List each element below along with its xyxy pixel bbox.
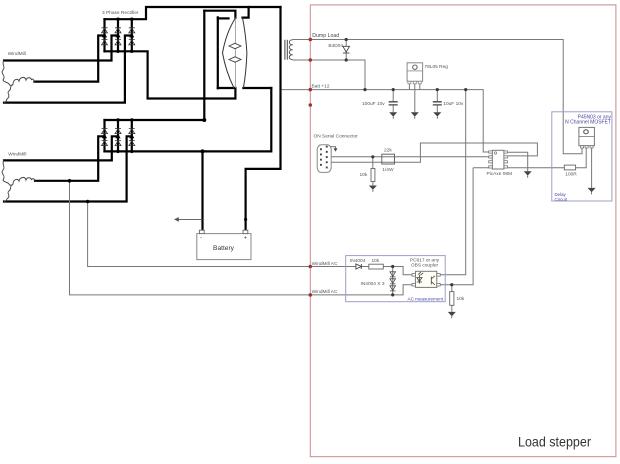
svg-text:OBS coupler: OBS coupler [411, 263, 439, 269]
svg-text:22k: 22k [384, 148, 392, 154]
svg-text:Dump Load: Dump Load [312, 33, 339, 39]
svg-text:IN4004: IN4004 [350, 258, 366, 264]
svg-text:10k: 10k [372, 258, 380, 264]
svg-text:AC measurement: AC measurement [408, 296, 444, 301]
svg-text:ON Serial Connector: ON Serial Connector [314, 134, 359, 140]
svg-text:IN4004 X 3: IN4004 X 3 [361, 281, 385, 287]
svg-text:B4D04: B4D04 [328, 43, 343, 49]
svg-text:WindMill AC: WindMill AC [312, 289, 338, 295]
svg-text:Battery: Battery [213, 245, 235, 252]
svg-text:PicAxe 08M: PicAxe 08M [487, 171, 513, 177]
svg-text:WindMill: WindMill [8, 51, 26, 57]
svg-text:Circuit: Circuit [555, 197, 568, 202]
svg-text:Load stepper: Load stepper [518, 435, 591, 450]
svg-text:PC817 or any: PC817 or any [410, 258, 440, 264]
svg-text:10k: 10k [360, 172, 368, 178]
svg-text:WindMill AC: WindMill AC [312, 261, 338, 267]
svg-text:-: - [200, 235, 202, 241]
svg-text:+: + [244, 236, 247, 242]
svg-text:Batt +12: Batt +12 [312, 84, 330, 90]
svg-text:100uF 10v: 100uF 10v [362, 101, 385, 107]
svg-text:10k: 10k [457, 296, 465, 302]
svg-text:1/4W: 1/4W [382, 167, 394, 173]
svg-text:100R: 100R [565, 171, 577, 177]
svg-text:10uF 10v: 10uF 10v [443, 101, 464, 107]
svg-text:3 Phase Rectifier: 3 Phase Rectifier [102, 10, 139, 16]
svg-text:WindMill: WindMill [8, 151, 26, 157]
svg-text:N Channel MOSFET: N Channel MOSFET [565, 119, 611, 125]
svg-text:78L05 Reg: 78L05 Reg [425, 64, 449, 70]
